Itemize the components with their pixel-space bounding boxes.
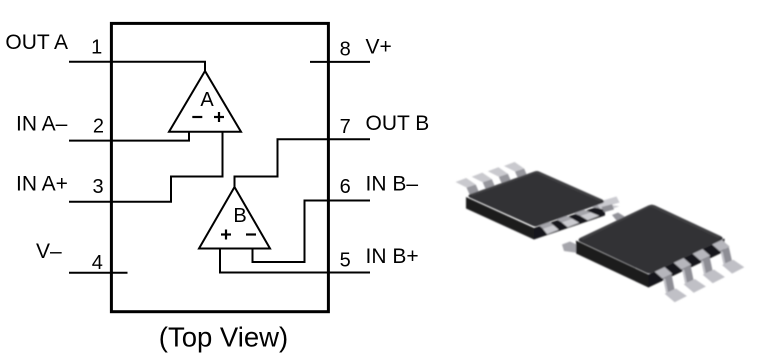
svg-text:B: B	[233, 205, 246, 227]
svg-text:8: 8	[340, 39, 351, 61]
svg-text:OUT B: OUT B	[366, 112, 430, 135]
svg-text:(Top View): (Top View)	[159, 322, 288, 353]
svg-text:OUT A: OUT A	[5, 31, 68, 54]
svg-text:A: A	[200, 89, 214, 111]
svg-text:2: 2	[93, 116, 104, 138]
svg-text:1: 1	[91, 36, 102, 58]
svg-text:V–: V–	[36, 240, 62, 263]
svg-text:5: 5	[340, 249, 351, 271]
svg-text:IN A–: IN A–	[16, 113, 68, 136]
svg-text:3: 3	[92, 176, 103, 198]
svg-text:6: 6	[340, 176, 351, 198]
svg-text:IN A+: IN A+	[16, 172, 68, 195]
svg-text:IN B–: IN B–	[366, 172, 419, 195]
svg-text:IN B+: IN B+	[366, 245, 419, 268]
svg-text:7: 7	[340, 116, 351, 138]
svg-text:4: 4	[92, 252, 103, 274]
svg-text:V+: V+	[366, 35, 392, 58]
